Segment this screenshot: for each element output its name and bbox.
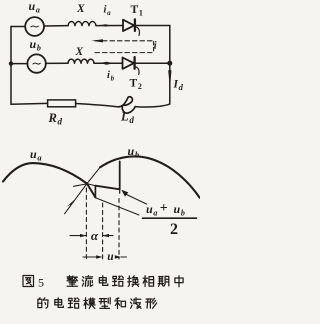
average (ua+ub)/2 segment [95, 186, 119, 190]
dashed loop bottom line [95, 52, 154, 54]
junction dot left rail [9, 61, 13, 65]
output drop from ua (commutation) [87, 184, 95, 198]
thyristor T2 cathode bar [133, 57, 135, 68]
svg-text:i: i [154, 41, 157, 52]
junction dot right rail [167, 61, 172, 66]
caption line 1: 图5 整流电路换相期中 [23, 276, 34, 287]
wire ub to inductor X2 [46, 62, 68, 64]
alpha dimension right arrowhead [103, 234, 109, 237]
inductor Ld [119, 97, 136, 113]
wire Ld to right rail [135, 104, 170, 107]
dashed vertical at commutation end [118, 199, 120, 260]
AC source U_a tilde [31, 25, 38, 28]
wire ua to inductor X1 [44, 25, 68, 27]
wire rail junction to source ub [11, 63, 28, 65]
u dimension left arrowhead [96, 255, 102, 258]
wire X1 to thyristor T1 [96, 25, 123, 27]
waveform ua curve [3, 163, 87, 184]
thyristor T2 gate [135, 66, 139, 74]
thyristor T1 cathode bar [134, 19, 136, 31]
tick at crossing [74, 184, 87, 186]
annotation arrow to average [127, 195, 147, 205]
caption line 2: 的电路模型和波形 [38, 298, 41, 300]
fraction bar [143, 217, 197, 219]
svg-text:X: X [76, 3, 85, 15]
resistor Rd [48, 100, 76, 107]
arrowhead on ub rising line [67, 200, 74, 207]
wire left vertical rail [10, 27, 12, 105]
dashed loop right side [153, 42, 155, 53]
svg-text:+: + [160, 201, 168, 216]
average-curve lead-in thin [87, 184, 95, 186]
wire T2 to junction [136, 62, 170, 64]
alpha dimension left line [70, 235, 86, 237]
AC source U_b tilde [33, 62, 40, 65]
dashed circulating-current loop top line [95, 40, 152, 42]
u dimension right arrowhead [115, 255, 121, 258]
alpha dimension right line [103, 235, 113, 237]
dashed loop left arrowhead [92, 39, 104, 42]
wire T1 to right rail [136, 25, 170, 27]
alpha dimension left arrowhead [80, 234, 86, 237]
dashed vertical at crossing [85, 188, 87, 259]
current arrow Id [168, 70, 171, 89]
step2 lower stub [119, 189, 121, 193]
commutation step up 1 [94, 186, 96, 198]
thyristor T1 gate [135, 27, 139, 36]
thyristor T1 triangle [123, 20, 134, 31]
u dimension left line [83, 256, 96, 258]
inductor X2 [68, 59, 94, 63]
thyristor T2 triangle [123, 58, 134, 69]
wire Rd to Ld [76, 104, 119, 107]
commutation step up 2 [119, 161, 121, 189]
svg-text:2: 2 [170, 221, 178, 238]
inductor X1 [68, 22, 96, 26]
waveform ub rising thin line [65, 167, 101, 213]
dashed vertical at commutation start [102, 203, 104, 259]
AC source U_b [27, 54, 45, 72]
svg-text:5: 5 [38, 276, 44, 290]
wire bottom-left to Rd [11, 102, 48, 105]
wire right vertical rail [169, 26, 171, 105]
svg-text:X: X [75, 46, 84, 58]
svg-text:α: α [91, 228, 99, 243]
wire top-left from rail to source ua [11, 26, 25, 28]
svg-text:u: u [107, 251, 114, 263]
ua thin continuation [96, 198, 139, 215]
current arrow ib [100, 62, 114, 65]
current arrow ia [100, 24, 112, 26]
AC source U_a [25, 17, 44, 36]
u dimension right line [121, 256, 126, 258]
wire X2 to thyristor T2 [94, 62, 123, 64]
waveform ub curve [100, 156, 200, 197]
annotation arrowhead [121, 190, 128, 197]
